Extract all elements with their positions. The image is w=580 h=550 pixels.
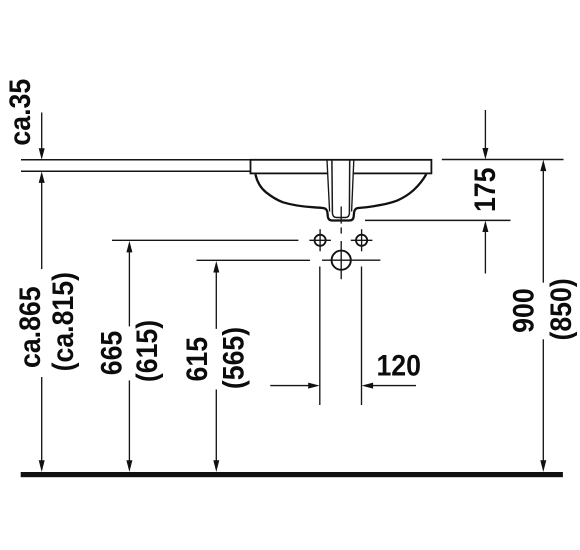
- svg-text:615: 615: [181, 337, 215, 382]
- svg-text:ca.865: ca.865: [13, 286, 47, 368]
- svg-text:ca.35: ca.35: [3, 79, 37, 146]
- svg-text:175: 175: [469, 168, 503, 213]
- svg-text:(850): (850): [545, 278, 579, 340]
- svg-text:900: 900: [507, 288, 541, 333]
- svg-text:(565): (565): [217, 327, 251, 389]
- svg-text:665: 665: [95, 331, 129, 376]
- svg-text:120: 120: [376, 349, 421, 383]
- svg-text:(ca.815): (ca.815): [47, 272, 81, 371]
- svg-text:(615): (615): [131, 320, 165, 382]
